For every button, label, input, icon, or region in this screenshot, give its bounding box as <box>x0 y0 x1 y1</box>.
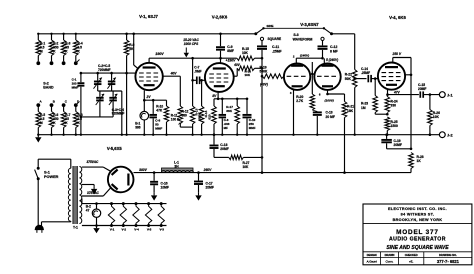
svg-text:A.Gaunt: A.Gaunt <box>366 260 377 264</box>
svg-text:47K: 47K <box>156 109 163 113</box>
svg-text:10K: 10K <box>242 51 249 55</box>
svg-text:20MF: 20MF <box>206 186 214 190</box>
svg-text:V-1, 6SJ7: V-1, 6SJ7 <box>139 14 158 19</box>
svg-text:V-1: V-1 <box>110 228 115 232</box>
svg-text:20MF: 20MF <box>394 143 402 147</box>
svg-text:20MF: 20MF <box>418 87 426 91</box>
svg-text:18K: 18K <box>347 109 354 113</box>
svg-text:100 K: 100 K <box>171 118 180 122</box>
svg-text:DRAWING NO.: DRAWING NO. <box>439 253 457 257</box>
svg-text:1K: 1K <box>417 159 422 163</box>
svg-text:500K: 500K <box>198 112 202 120</box>
svg-text:SINE AND SQUARE WAVE: SINE AND SQUARE WAVE <box>386 245 449 251</box>
svg-text:V-4, 6K6: V-4, 6K6 <box>389 15 406 20</box>
svg-text:DESIGN: DESIGN <box>367 253 377 257</box>
svg-text:BAND: BAND <box>43 86 54 90</box>
svg-text:10K: 10K <box>245 73 251 77</box>
svg-text:40V: 40V <box>233 63 241 67</box>
svg-text:190V: 190V <box>155 52 164 56</box>
svg-text:V-3: V-3 <box>159 228 164 232</box>
svg-text:POWER: POWER <box>44 175 59 179</box>
svg-text:V-2: V-2 <box>122 228 127 232</box>
svg-text:S-1: S-1 <box>44 170 50 174</box>
svg-text:MODEL 377: MODEL 377 <box>396 229 439 236</box>
svg-text:500K: 500K <box>260 70 269 74</box>
svg-text:ELECTRONIC INST. CO. INC.: ELECTRONIC INST. CO. INC. <box>388 207 447 211</box>
svg-text:720MMF: 720MMF <box>98 68 111 72</box>
svg-text:377-7- 6821: 377-7- 6821 <box>437 259 460 264</box>
svg-text:10K: 10K <box>243 165 250 169</box>
svg-text:386: 386 <box>135 126 141 130</box>
svg-text:620: 620 <box>208 114 212 119</box>
svg-text:300V: 300V <box>139 168 148 172</box>
svg-text:MMF: MMF <box>72 85 79 89</box>
svg-text:AUDIO GENERATOR: AUDIO GENERATOR <box>389 237 446 243</box>
svg-text:DRAWN: DRAWN <box>385 253 395 257</box>
svg-text:V-4: V-4 <box>134 228 139 232</box>
svg-text:1500: 1500 <box>391 124 399 128</box>
svg-text:BROOKLYN, NEW YORK: BROOKLYN, NEW YORK <box>393 218 443 222</box>
svg-text:CHECKED: CHECKED <box>405 253 418 257</box>
svg-text:+190V: +190V <box>226 59 236 63</box>
svg-text:WAVEFORM: WAVEFORM <box>293 37 313 41</box>
svg-text:250 V: 250 V <box>391 52 401 56</box>
svg-text:330: 330 <box>391 104 397 108</box>
svg-text:47: 47 <box>86 209 90 213</box>
svg-text:SINE: SINE <box>266 24 273 28</box>
svg-text:920MMF: 920MMF <box>112 112 125 116</box>
svg-text:J-1: J-1 <box>447 92 453 97</box>
svg-text:50K: 50K <box>345 77 352 81</box>
svg-text:+E.: +E. <box>409 259 413 263</box>
svg-text:8 MF: 8 MF <box>330 50 338 54</box>
svg-text:84 WITHERS ST.: 84 WITHERS ST. <box>401 212 435 216</box>
svg-text:20 MF: 20 MF <box>326 115 335 119</box>
svg-text:.25MF: .25MF <box>272 50 282 54</box>
svg-text:375VAC: 375VAC <box>86 160 99 164</box>
svg-text:.25MF: .25MF <box>361 71 370 75</box>
svg-text:1000 CPS: 1000 CPS <box>184 42 199 46</box>
svg-text:10K: 10K <box>433 115 440 119</box>
svg-text:47V: 47V <box>393 91 401 95</box>
svg-text:T-1: T-1 <box>73 226 78 230</box>
svg-text:.5MF: .5MF <box>194 69 201 73</box>
svg-text:36K: 36K <box>226 109 232 113</box>
svg-text:M: M <box>40 50 43 54</box>
svg-text:V-5,6X5: V-5,6X5 <box>107 146 123 151</box>
svg-text:MMF: MMF <box>155 126 162 130</box>
svg-text:2.7K: 2.7K <box>296 99 304 103</box>
svg-text:5K: 5K <box>129 47 134 51</box>
svg-text:SQUARE: SQUARE <box>268 37 282 41</box>
svg-text:3H: 3H <box>174 164 179 168</box>
svg-text:V-2,6K6: V-2,6K6 <box>212 15 228 20</box>
svg-text:5 (240V): 5 (240V) <box>326 58 338 62</box>
svg-text:10MF: 10MF <box>161 186 169 190</box>
svg-text:(100V): (100V) <box>325 98 334 102</box>
svg-text:J-2: J-2 <box>447 133 453 138</box>
svg-text:40V: 40V <box>170 72 178 76</box>
svg-text:(140V): (140V) <box>300 54 309 58</box>
svg-text:MMF: MMF <box>249 126 256 130</box>
svg-text:MF: MF <box>224 126 228 130</box>
svg-text:V-3,6SN7: V-3,6SN7 <box>300 22 319 27</box>
svg-text:20MF: 20MF <box>220 147 228 151</box>
svg-text:V-5: V-5 <box>147 228 152 232</box>
svg-text:680: 680 <box>182 114 188 118</box>
svg-text:M: M <box>40 121 43 125</box>
svg-text:8MF: 8MF <box>227 49 234 53</box>
svg-text:Conn.: Conn. <box>385 260 393 264</box>
svg-text:1M: 1M <box>361 106 366 110</box>
svg-text:260V: 260V <box>203 168 213 172</box>
svg-text:(48V): (48V) <box>260 82 268 86</box>
